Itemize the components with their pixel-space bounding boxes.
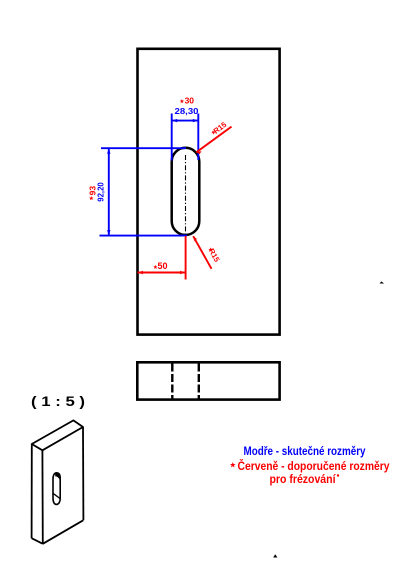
svg-text:30: 30	[185, 96, 195, 106]
svg-text:28,30: 28,30	[175, 106, 199, 116]
svg-text:Modře - skutečné rozměry: Modře - skutečné rozměry	[244, 444, 366, 458]
svg-text:Červeně - doporučené rozměry: Červeně - doporučené rozměry	[238, 458, 390, 473]
svg-text:50: 50	[157, 261, 167, 271]
svg-text:93: 93	[88, 186, 98, 196]
svg-text:( 1 : 5 ): ( 1 : 5 )	[31, 393, 85, 409]
svg-text:pro frézování: pro frézování	[270, 472, 337, 486]
